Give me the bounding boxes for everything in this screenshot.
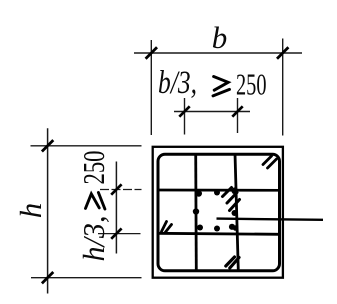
stirrup leg vertical 2 (235, 154, 238, 271)
dimension line h (47, 128, 49, 293)
tick left of b/3 (179, 106, 189, 116)
dimension line b/3 (174, 111, 250, 113)
stirrup leg vertical 1 (194, 154, 197, 271)
tick right of b/3 (232, 106, 242, 116)
tick bottom of h (42, 272, 53, 283)
dimension line b (134, 52, 302, 54)
extension line top of h/3 (100, 189, 142, 191)
tick top of h (42, 140, 53, 151)
extension line right of b/3 (237, 98, 239, 133)
extension line top of h (31, 145, 142, 147)
hatch marks left cell (162, 222, 172, 233)
dimension line h/3 (115, 162, 117, 254)
rotated labels h/3, >= 250 (76, 151, 111, 262)
hatch marks top-right cell (263, 156, 277, 168)
extension line left of b (150, 40, 152, 135)
svg-text:h/3,: h/3, (76, 216, 111, 262)
svg-text:h: h (13, 203, 48, 219)
svg-text:250: 250 (236, 67, 267, 102)
tick top of h/3 (111, 184, 121, 194)
ink blob at centre cell corner (231, 187, 238, 194)
extension line bottom of h/3 (98, 233, 141, 235)
hatch marks bottom cell (226, 257, 239, 268)
extension line left of b/3 (184, 98, 186, 135)
tick right of b (277, 47, 288, 58)
tick bottom of h/3 (111, 228, 121, 238)
stirrup leg horizontal 1 (157, 189, 281, 192)
hatch marks centre cell (223, 188, 240, 211)
rebar dots (193, 190, 239, 232)
svg-text:250: 250 (76, 151, 111, 185)
tick left of b (146, 47, 157, 58)
symbol >= top (213, 77, 230, 96)
extension line bottom of h (31, 277, 142, 279)
extension line right of b (282, 39, 284, 136)
column outline (outer square) (153, 147, 283, 278)
leader line (217, 219, 324, 220)
stirrup leg horizontal 2 (157, 233, 281, 234)
stirrup (inner rounded tie) (158, 154, 280, 271)
svg-text:b: b (212, 20, 228, 55)
svg-text:b/3,: b/3, (158, 65, 197, 101)
